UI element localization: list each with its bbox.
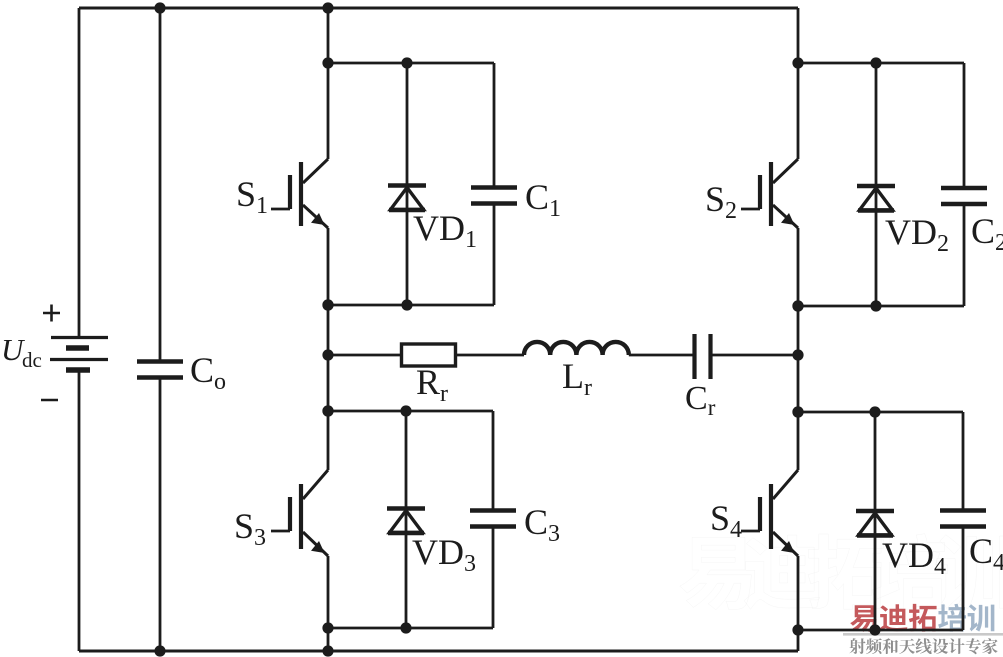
wire Cr to right leg [711, 354, 799, 357]
wire left leg from top bus to S1 [327, 8, 330, 159]
wire lower-right cell top [798, 411, 963, 414]
node Co top junction [154, 2, 165, 13]
capacitor C2 [941, 188, 987, 204]
svg-text:Lr: Lr [562, 356, 592, 401]
wire VD1 branch [406, 63, 409, 305]
diode VD1 [388, 186, 426, 211]
capacitor Cr [695, 334, 711, 379]
svg-text:VD2: VD2 [885, 212, 949, 257]
wire top DC bus [79, 7, 798, 10]
svg-text:S1: S1 [236, 174, 268, 219]
wire C4 branch upper [962, 412, 965, 510]
node VD4 bottom junction [869, 624, 880, 635]
svg-text:VD1: VD1 [413, 208, 477, 253]
wire bottom DC bus [79, 650, 798, 653]
svg-text:C1: C1 [525, 177, 561, 222]
transistor S3 (IGBT) [271, 470, 328, 556]
svg-text:C3: C3 [524, 502, 560, 547]
svg-text:Cr: Cr [685, 380, 716, 420]
wire C2 branch upper [963, 63, 966, 188]
resistor Rr [402, 344, 456, 366]
node mid-left lower node [322, 405, 333, 416]
wire right leg S2 emitter to S4 collector [797, 228, 800, 470]
node VD3 top junction [400, 405, 411, 416]
diode VD2 [857, 186, 895, 211]
transistor S1 (IGBT) [271, 159, 328, 228]
node mid-right upper node [792, 300, 803, 311]
wire C4 branch lower [962, 528, 965, 631]
node mid-left node [322, 349, 333, 360]
wire left rail lower (battery -) [78, 370, 81, 651]
node S4 collector junction [792, 406, 803, 417]
wire lower-left cell bottom [328, 627, 493, 630]
svg-text:Rr: Rr [416, 362, 448, 407]
wire left leg S1 emitter to S3 collector [327, 228, 330, 470]
wire VD4 branch [874, 412, 877, 630]
capacitor C3 [470, 511, 516, 527]
node VD2 top junction [870, 57, 881, 68]
faint background watermark (decorative scan artifact) [680, 534, 1003, 610]
node mid-left upper node [322, 299, 333, 310]
capacitor C4 [940, 511, 986, 527]
watermark logo text (red+blue) [850, 604, 994, 632]
node mid-right node [792, 349, 803, 360]
diode VD3 [387, 509, 425, 534]
wire Co rail lower [159, 378, 162, 651]
diode VD4 [856, 511, 894, 536]
wire right leg S4 emitter to bottom bus [797, 556, 800, 651]
wire VD2 branch [875, 63, 878, 306]
transistor S2 (IGBT) [741, 159, 798, 228]
svg-text:S3: S3 [234, 506, 266, 551]
svg-text:VD4: VD4 [882, 535, 946, 580]
battery Udc [50, 338, 108, 371]
wire VD3 branch [405, 411, 408, 628]
svg-text:Co: Co [190, 350, 226, 395]
node left leg top junction [322, 2, 333, 13]
wire upper-right cell bottom [798, 305, 964, 308]
svg-text:C2: C2 [971, 211, 1003, 256]
wire Co rail upper [159, 8, 162, 360]
node S3 collector junction [322, 405, 333, 416]
wire lower-left cell top [328, 410, 493, 413]
node Co bottom junction [154, 645, 165, 656]
svg-text:S4: S4 [710, 498, 742, 543]
battery minus sign [41, 399, 58, 402]
svg-text:dc: dc [22, 348, 42, 372]
wire mid rail to Rr [328, 354, 401, 357]
transistor S4 (IGBT) [741, 470, 798, 556]
node VD3 bottom junction [400, 622, 411, 633]
node VD1 top junction [401, 57, 412, 68]
battery plus sign [43, 305, 60, 322]
wire C3 branch lower [492, 527, 495, 628]
node VD2 bottom junction [870, 300, 881, 311]
node S3 emitter junction [322, 622, 333, 633]
inductor Lr [524, 342, 629, 355]
node S1 collector junction [322, 57, 333, 68]
watermark slogan text [849, 638, 997, 654]
node VD4 top junction [869, 406, 880, 417]
wire right leg from top bus to S2 [797, 8, 800, 159]
node S2 collector junction [792, 57, 803, 68]
svg-text:C4: C4 [969, 531, 1003, 576]
capacitor C1 [471, 188, 517, 204]
wire C2 branch lower [963, 205, 966, 307]
wire upper-left cell top [328, 62, 494, 65]
wire C1 branch upper [493, 63, 496, 187]
svg-text:S2: S2 [705, 179, 737, 224]
node S1 emitter junction [322, 299, 333, 310]
wire Rr to Lr [456, 354, 525, 357]
wire upper-left cell bottom [328, 304, 494, 307]
node VD1 bottom junction [401, 299, 412, 310]
wire Lr to Cr [629, 354, 694, 357]
wire C1 branch lower [493, 204, 496, 305]
wire upper-right cell top [798, 62, 964, 65]
node S4 emitter junction [792, 624, 803, 635]
svg-text:VD3: VD3 [412, 532, 476, 577]
wire left rail upper (battery +) [78, 8, 81, 337]
wire C3 branch upper [492, 411, 495, 510]
wire left leg S3 emitter to bottom bus [327, 556, 330, 651]
node mid-right lower node [792, 406, 803, 417]
wire lower-right cell bottom [798, 629, 963, 632]
node S2 emitter junction [792, 300, 803, 311]
capacitor Co [137, 362, 183, 378]
node left leg bottom junction [322, 645, 333, 656]
watermark divider line [843, 633, 1003, 636]
